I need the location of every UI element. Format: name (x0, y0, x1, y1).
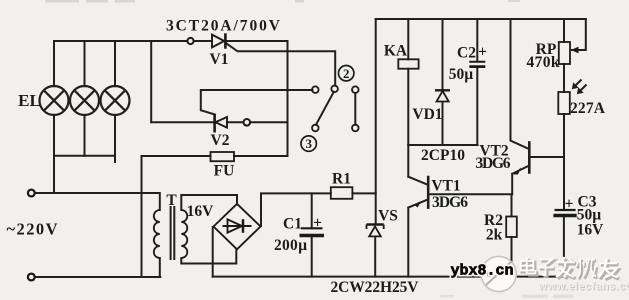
svg-text:3DG6: 3DG6 (476, 155, 511, 172)
svg-text:16V: 16V (187, 203, 215, 220)
svg-text:T: T (166, 192, 177, 209)
svg-text:2: 2 (343, 66, 350, 81)
svg-text:KA: KA (384, 43, 408, 60)
svg-text:EL: EL (18, 91, 41, 110)
svg-text:VT1: VT1 (431, 178, 460, 195)
svg-text:16V: 16V (577, 222, 605, 239)
svg-text:FU: FU (214, 163, 235, 180)
svg-text:ybx8.cn: ybx8.cn (451, 263, 514, 280)
svg-text:470k: 470k (527, 54, 560, 71)
svg-text:3: 3 (305, 136, 312, 151)
svg-text:+: + (565, 196, 574, 213)
svg-text:200µ: 200µ (274, 237, 307, 254)
svg-text:227A: 227A (570, 100, 606, 117)
svg-text:2CP10: 2CP10 (421, 147, 465, 164)
svg-text:~220V: ~220V (7, 220, 58, 239)
svg-text:2k: 2k (486, 227, 503, 244)
svg-text:+: + (313, 215, 322, 232)
svg-text:C1: C1 (283, 216, 302, 233)
svg-text:C2: C2 (457, 45, 476, 62)
svg-text:3DG6: 3DG6 (432, 194, 468, 211)
svg-text:R1: R1 (332, 171, 351, 188)
svg-text:V2: V2 (211, 132, 230, 149)
svg-text:2CW22H25V: 2CW22H25V (331, 279, 420, 296)
svg-text:+: + (478, 44, 487, 61)
svg-text:50µ: 50µ (449, 66, 474, 83)
svg-text:VS: VS (378, 208, 398, 225)
svg-text:3CT20A/700V: 3CT20A/700V (166, 18, 281, 35)
svg-text:www.elecfans.com: www.elecfans.com (538, 281, 629, 293)
svg-text:VD1: VD1 (412, 106, 442, 123)
svg-text:V1: V1 (210, 51, 229, 68)
